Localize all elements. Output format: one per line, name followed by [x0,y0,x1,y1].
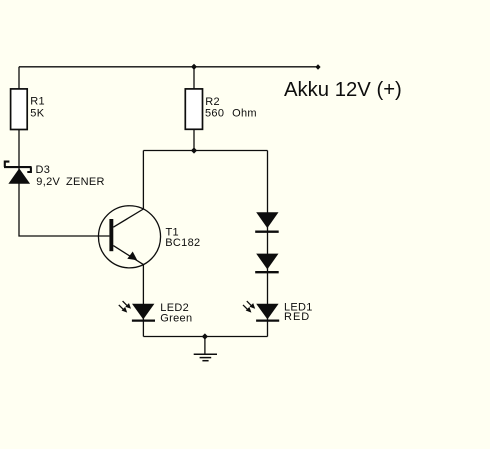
svg-text:9,2V ZENER: 9,2V ZENER [36,176,104,188]
svg-text:D3: D3 [36,164,51,176]
svg-text:Akku 12V (+): Akku 12V (+) [284,79,402,101]
svg-text:RED: RED [284,311,310,323]
svg-text:560 Ohm: 560 Ohm [205,108,257,120]
svg-text:Green: Green [160,312,192,324]
svg-text:R1: R1 [30,96,45,108]
svg-text:5K: 5K [30,108,44,120]
svg-text:BC182: BC182 [165,237,200,249]
svg-text:R2: R2 [205,96,220,108]
